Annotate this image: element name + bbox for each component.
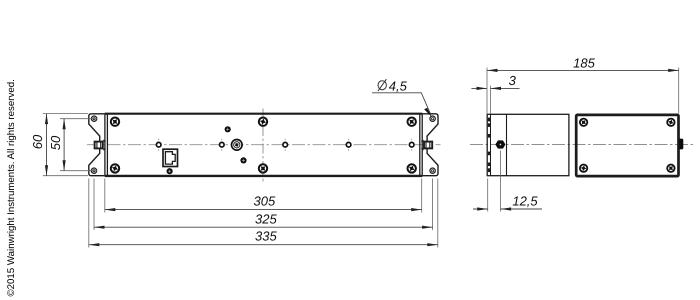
side rear screws [580, 118, 675, 172]
svg-text:3: 3 [509, 73, 517, 88]
left ear hole bottom [91, 168, 96, 173]
diameter 4,5 leader [372, 78, 432, 117]
dim 3 [471, 73, 519, 114]
svg-text:©2015 Wainwright Instruments.: ©2015 Wainwright Instruments. All rights… [6, 79, 17, 296]
left rack ear [89, 114, 105, 176]
dim 335 [89, 229, 438, 247]
dim 185 [487, 55, 679, 113]
ear plate slots (edge-on) [488, 118, 490, 173]
svg-text:12,5: 12,5 [512, 194, 538, 209]
svg-text:50: 50 [48, 135, 63, 150]
left ear hole top [91, 116, 96, 121]
right ear hole bottom [430, 168, 435, 173]
dim 50 [48, 119, 97, 171]
right side connector edge-on [421, 140, 432, 150]
small panel holes on centerline [156, 142, 414, 147]
hole centerline ticks [159, 139, 412, 151]
dim 12,5 [473, 151, 542, 212]
central connector [232, 140, 243, 151]
left side connector edge-on [95, 140, 106, 150]
right side bump connector [679, 139, 683, 150]
svg-text:325: 325 [255, 211, 277, 226]
RJ45 jack [163, 149, 178, 166]
right ear hole top [430, 116, 435, 121]
dim 60 [30, 114, 88, 176]
side centerline [470, 144, 694, 146]
front panel outline [105, 113, 423, 177]
rear cover box [576, 115, 678, 176]
svg-text:60: 60 [30, 134, 45, 149]
front view horizontal centerline [87, 144, 441, 146]
bottom extension lines [89, 179, 438, 248]
right rack ear [423, 114, 438, 176]
black button screws [167, 126, 247, 174]
panel screws (6 phillips) [110, 117, 416, 173]
svg-text:185: 185 [573, 55, 595, 70]
svg-text:305: 305 [254, 194, 276, 209]
dim 325 [94, 211, 433, 228]
side hex connector [496, 141, 506, 149]
side body outline [487, 114, 569, 175]
svg-text:335: 335 [255, 229, 277, 244]
svg-text:4,5: 4,5 [389, 78, 408, 93]
front view vertical centerline [262, 109, 264, 182]
dim 305 [105, 194, 422, 212]
